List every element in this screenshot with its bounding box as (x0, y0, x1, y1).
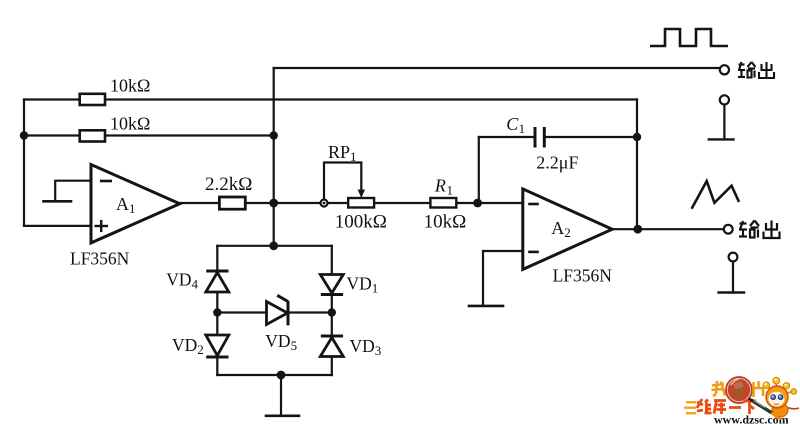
magnifier with chip (726, 377, 752, 403)
diode VD4 (206, 271, 229, 292)
wire bottom-right terminal ground drop (732, 261, 734, 292)
wire RP1 to R1 (374, 202, 430, 204)
watermark logo (684, 377, 799, 425)
node RP1 left terminal (open circle) (321, 200, 328, 207)
icon square wave (650, 29, 728, 46)
resistor 2.2k (219, 197, 245, 209)
一 (729, 406, 741, 409)
svg-text:10kΩ: 10kΩ (110, 113, 150, 133)
node divider left (20, 131, 28, 139)
speed lines (686, 401, 696, 403)
golden text 我 (712, 381, 729, 396)
terminal triangle-wave output (724, 225, 733, 234)
capacitor C1 2.2uF (506, 114, 578, 173)
diode VD1 (320, 275, 343, 295)
svg-text:10kΩ: 10kΩ (110, 76, 150, 96)
wire vertical square-wave node rail (273, 68, 275, 246)
resistor R1 10k (424, 176, 467, 233)
wire bridge right rail (331, 246, 333, 375)
node C1 right (633, 133, 641, 141)
diode VD5 (zener) (267, 295, 289, 325)
wire C1 right lead (544, 136, 637, 138)
resistor 10k lower feedback (80, 130, 105, 141)
ground at A2 non-inverting input (469, 305, 503, 308)
wire bridge middle (217, 311, 331, 313)
node A2 output (633, 225, 642, 234)
node square rail at lower 10k (270, 131, 278, 139)
svg-text:1: 1 (447, 183, 454, 198)
ground at top-right terminal (709, 138, 734, 140)
wire feedback line from A2 output to divider (24, 98, 637, 100)
svg-text:C: C (506, 114, 519, 134)
svg-text:R: R (434, 176, 446, 196)
wire A1 output to 2.2k (180, 202, 220, 204)
op-amp A1 (91, 165, 180, 243)
wire R1 to A2 inverting input (456, 202, 523, 204)
wire top square-wave output line (274, 67, 720, 69)
svg-text:100kΩ: 100kΩ (335, 212, 387, 233)
diode VD2 (206, 335, 229, 357)
node junction dots (20, 131, 642, 379)
node bridge mid-left (213, 308, 221, 316)
label output (triangle wave) 输出 (739, 221, 780, 239)
wire left divider rail (23, 100, 25, 226)
mascot (749, 377, 800, 419)
wire 2.2k to RP1 terminal (245, 202, 320, 204)
node bridge mid-right (328, 308, 336, 316)
wire A2 non-inverting input stub (483, 251, 523, 306)
下 (744, 400, 757, 403)
svg-text:LF356N: LF356N (553, 266, 613, 286)
diode VD3 (320, 336, 343, 357)
ground at bottom-right terminal (719, 291, 744, 293)
terminal ground top-right (720, 95, 729, 104)
ground at A1 inverting input (44, 200, 72, 203)
库 (714, 399, 726, 402)
wire A1 inverting input stub (55, 181, 91, 201)
svg-text:10kΩ: 10kΩ (424, 212, 467, 233)
node A1 output / square rail (269, 199, 278, 208)
golden text 片 (754, 381, 764, 397)
wire RP1 wiper bracket (324, 163, 361, 200)
wire bridge ground drop (280, 375, 282, 415)
wire lower 10k line (24, 134, 274, 136)
op-amp A2 (523, 189, 612, 270)
node bridge top (269, 241, 278, 250)
terminal ground bottom-right (729, 253, 738, 262)
potentiometer RP1 100k (328, 142, 387, 233)
icon triangle wave (692, 181, 739, 209)
resistor 10k upper feedback (80, 94, 105, 105)
wire C1 left lead (479, 136, 535, 138)
wire A2 output line (612, 228, 724, 230)
维 (697, 402, 703, 405)
node bridge bottom (277, 371, 286, 380)
wire bridge left rail (216, 246, 218, 375)
svg-text:2.2μF: 2.2μF (536, 153, 578, 173)
terminal square-wave output (720, 65, 729, 74)
wire right feedback vertical (636, 100, 638, 230)
wire bridge bottom (217, 374, 331, 376)
wire RP1 terminal to RP1 body (327, 202, 348, 204)
red text 维库一下 (697, 399, 756, 414)
node A2 inverting input (473, 199, 482, 208)
svg-text:1: 1 (519, 121, 526, 136)
svg-text:LF356N: LF356N (70, 249, 130, 269)
wire top output terminal ground drop (723, 105, 725, 139)
label output (square wave) 输出 (738, 62, 774, 78)
svg-text:2.2kΩ: 2.2kΩ (205, 174, 252, 195)
wire C1 branch vertical (478, 137, 480, 203)
wire A1 non-inverting input (24, 225, 91, 227)
ground below bridge (266, 414, 299, 417)
wire bridge top (217, 245, 331, 247)
